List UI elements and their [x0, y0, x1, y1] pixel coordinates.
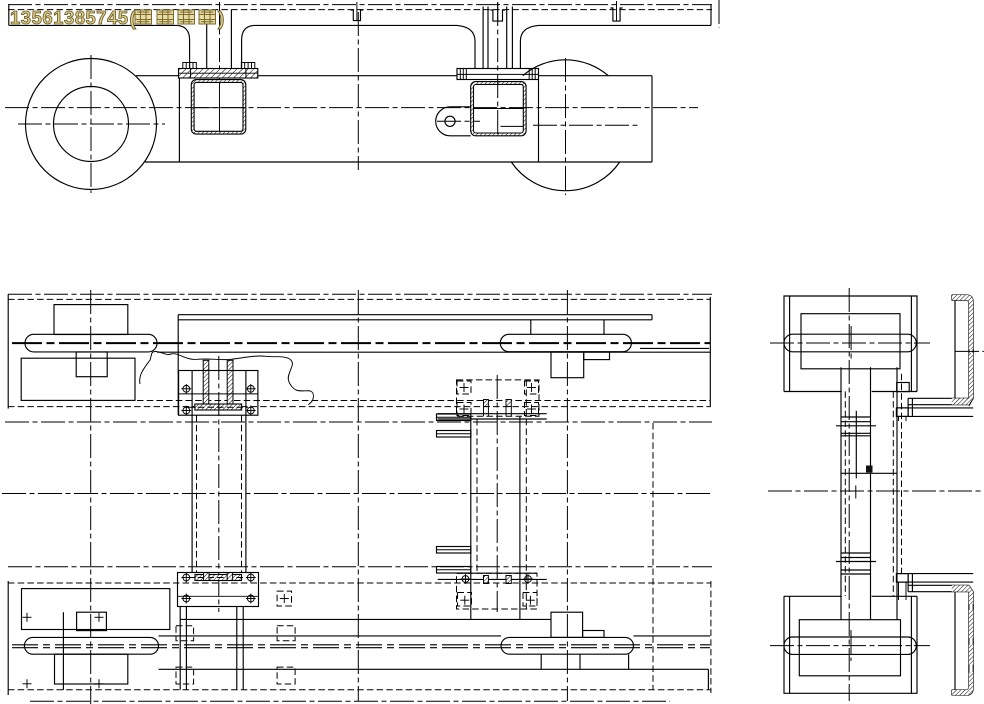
bottom channel inner face line — [954, 592, 956, 690]
hanger1 left bolt head — [183, 63, 197, 69]
hook plate step bottom 2 — [583, 631, 604, 638]
column1 plate bolt TL — [181, 384, 191, 394]
plan top rail dashed edge — [8, 298, 711, 300]
tab B stud — [497, 2, 499, 21]
hidden tube square c — [277, 591, 291, 606]
column1 clamp bar (hatched) — [195, 404, 242, 410]
wheel2 bottom arc — [511, 162, 619, 191]
rail clamp tab B — [490, 10, 505, 21]
column2 top flange hidden rect — [457, 380, 540, 416]
right view bottom rail inner rect — [799, 620, 900, 676]
right view bottom pill — [784, 637, 916, 654]
carriage lower rect top-left — [21, 358, 135, 400]
bottom block stud 1 — [898, 582, 900, 600]
bottom arm hatched strip — [952, 585, 969, 591]
plan bottom chain line y700 — [30, 700, 670, 702]
column2 top nut right — [506, 400, 511, 407]
hanger2 outer left — [474, 41, 476, 69]
wheel1 outer circle — [26, 59, 157, 190]
column2 bottom flange top edge solid — [457, 572, 538, 574]
column1 plate bolt TR — [246, 384, 256, 394]
column2 bottom nut right — [506, 576, 511, 584]
beam web line at hanger2 — [538, 80, 540, 163]
watermark glyph block 4 (hao) — [199, 10, 216, 24]
mark bottom-left b — [95, 613, 104, 622]
right view bottom frame inner left edge — [789, 596, 791, 693]
right view bottom pill centerline — [770, 645, 930, 647]
top rail dashed edge — [8, 9, 712, 11]
right view joint bands bottom — [836, 553, 876, 574]
plan vertical dashed x653 — [652, 423, 654, 690]
top channel chain mark — [955, 350, 984, 352]
hanger1 flange right ear line — [245, 69, 247, 79]
hanger2 rod pair left — [482, 7, 484, 69]
mark bottom-left a — [23, 613, 32, 622]
column2 right edge — [519, 416, 521, 619]
watermark glyph block 3 (tong) — [178, 10, 195, 24]
right view top rail outer frame — [784, 296, 917, 392]
right view column hidden right — [892, 391, 894, 596]
right view top frame inner right edge — [910, 296, 912, 392]
slot pill 2 (bottom rail) — [501, 637, 634, 654]
column1 bottom plate mid line — [178, 595, 259, 597]
hidden square c cross — [280, 594, 289, 603]
vertical reference line x719 — [718, 0, 720, 28]
right view top pill centerline — [770, 342, 930, 344]
plan bottom rail dashed bottom edge — [8, 689, 711, 691]
clevis lug — [436, 107, 471, 136]
column2 corner mark boxes — [457, 381, 471, 394]
column1 tube lines below bottom flange — [180, 607, 243, 690]
column2 nut stud 1 — [483, 407, 485, 417]
web drop line 1 — [530, 320, 532, 335]
column2 pin tab 1 — [437, 414, 471, 421]
column2 hidden left wall — [476, 419, 478, 573]
slot pill 1 (bottom rail) — [24, 637, 158, 654]
plan bottom rail chain edge — [8, 566, 712, 568]
tube2 horizontal centerline — [474, 108, 524, 110]
plan top rail left end — [7, 294, 9, 408]
top rail hidden line y400 — [137, 400, 710, 402]
hanger2 rod pair right — [506, 7, 508, 69]
hook plate step 2 — [584, 352, 610, 360]
vertical reference line x358 — [357, 12, 359, 170]
top C-channel inner contour — [952, 300, 969, 398]
tube2 vertical centerline — [497, 2, 499, 135]
carriage big rect bottom-left — [22, 589, 170, 630]
column2 nut stud 3 — [505, 407, 507, 417]
hanger2 flange split line — [457, 73, 539, 75]
pill2b drop verticals — [541, 654, 628, 669]
slot pill 1 (top rail) — [25, 334, 157, 352]
bottom block stud 2 — [905, 582, 907, 600]
plan mid chain line — [2, 493, 712, 495]
column1 top flange plate — [179, 371, 258, 416]
bottom arm plate lines — [896, 574, 973, 592]
column2 nut stud 2 — [487, 407, 489, 417]
top rail thick chain centerline — [12, 342, 710, 344]
top rail bottom edge segments — [9, 24, 178, 26]
column2 bottom bolt-row line — [438, 578, 547, 580]
top arm hatched strip — [952, 398, 969, 404]
top rail web line pair — [178, 314, 652, 316]
top arm vertical 2 — [911, 398, 913, 416]
right view column left edge — [840, 367, 842, 619]
bottom rail double chain centerline — [12, 644, 710, 646]
right view column partial line — [855, 411, 857, 479]
right view column inner line — [870, 367, 872, 619]
column1 left edge — [191, 371, 193, 573]
right view top pill center tick — [850, 326, 852, 360]
tab A stud — [356, 2, 358, 21]
right view column hidden left — [844, 391, 846, 596]
column2 bottom + BL — [460, 596, 469, 605]
top rail hidden bottom edge — [8, 406, 711, 408]
tube1 vertical centerline solid — [219, 82, 221, 131]
column1 plate mid line — [179, 393, 258, 395]
right view frame corner box — [897, 383, 910, 392]
hanger2 outer right — [519, 41, 521, 69]
beam web line at hanger1 — [178, 78, 180, 162]
hanger2 flange — [457, 69, 539, 80]
top rail left end — [8, 5, 10, 26]
bottom rail mid line segments — [159, 635, 502, 637]
column1 bottom nut right — [227, 573, 232, 581]
bottom arm vertical 2 — [911, 574, 913, 592]
column2 nut stud 4 — [510, 407, 512, 417]
wheel1 vertical centerline — [90, 55, 92, 193]
column2 bottom flange hidden rect — [457, 573, 538, 609]
wheel2 vertical centerline — [565, 58, 567, 195]
square tube 2 (section, hatched wall) — [471, 82, 526, 136]
top channel left end cap — [951, 295, 953, 300]
mark bottom-left c — [23, 679, 32, 688]
top block stud 1 — [898, 416, 900, 421]
column1 bottom bolt TL — [181, 573, 191, 583]
right view top rail inner rect — [801, 314, 900, 369]
column1 hidden right wall — [241, 415, 243, 572]
bottom channel left end cap — [951, 690, 953, 695]
slot pill 2 (top rail) — [500, 334, 631, 351]
web pair right end — [651, 315, 653, 320]
column1 plate bolt BR — [246, 406, 256, 416]
plan bottom rail left end — [7, 581, 9, 695]
beam bottom edge — [145, 161, 652, 163]
right view weld dot — [866, 466, 873, 473]
right view column right edge — [896, 367, 898, 619]
plan bottom rail right end (dashed) — [710, 581, 712, 693]
bottom clamp bar dashes — [188, 577, 248, 579]
carriage vertical line bottom-left — [62, 612, 64, 690]
bottom C-channel outer contour — [952, 585, 973, 695]
column2 corner mark BR — [527, 405, 536, 414]
mark bottom-left d — [95, 679, 104, 688]
svg-text:): ) — [218, 9, 224, 30]
column2 bottom + boxes — [458, 593, 472, 607]
right view column cross line — [841, 472, 897, 474]
top arm plate lines — [896, 398, 973, 416]
hanger1 centerline — [219, 2, 221, 135]
hanger1 flange left ear line — [190, 69, 192, 79]
top rail hidden top edge (chain line) — [8, 4, 712, 6]
column2 corner mark TL — [460, 383, 469, 392]
hidden tube square a — [176, 626, 194, 641]
column1 bottom bolt BR — [246, 594, 256, 604]
wheel2 horizontal centerline — [533, 124, 640, 126]
hidden tube square b — [176, 667, 194, 684]
tube2 extra line — [501, 125, 524, 127]
column2 bottom + BR — [526, 596, 535, 605]
top rail right end — [710, 5, 712, 26]
hanger2 left fillet — [457, 25, 475, 41]
top arm vertical 1 — [907, 398, 909, 416]
wheel1 horizontal centerline — [18, 123, 165, 125]
column2 left edge — [470, 416, 472, 619]
bottom channel hatched wall — [969, 585, 973, 604]
bottom arm clamp block — [896, 574, 908, 583]
break wavy line (top rail cut) — [140, 351, 314, 405]
plan chain line y422 — [5, 421, 712, 423]
hanger1 outer right — [241, 40, 243, 69]
right view mid chain tick — [855, 486, 857, 499]
column2 bottom nut left — [484, 576, 489, 584]
column1 hidden left wall — [196, 415, 198, 572]
hidden tube square d — [277, 626, 295, 641]
column2 vertical centerline — [496, 375, 498, 612]
main horizontal centerline of tubes — [5, 107, 698, 109]
top channel hatched wall — [952, 295, 973, 349]
column2 pin tab 4 — [437, 567, 471, 574]
svg-text:13561385745: 13561385745 — [10, 7, 129, 28]
column2 corner mark BL — [460, 405, 469, 414]
hanger2 right fillet — [520, 25, 538, 41]
rail clamp tab C — [610, 8, 622, 21]
column1 tube wall hatched strip right — [227, 360, 233, 404]
plan top rail right end — [709, 297, 711, 406]
clevis pin hole — [445, 116, 455, 126]
plan bottom rail dashed edge — [8, 582, 711, 584]
tab C stud — [616, 1, 618, 21]
column2 bottom bolt L — [461, 574, 471, 584]
carriage block bottom-left — [55, 654, 128, 684]
column1 bottom bolt TR — [246, 573, 256, 583]
top rail right slot edge stub — [640, 347, 709, 349]
bottom rail lower right corner — [707, 669, 709, 690]
clevis centerline — [437, 120, 480, 122]
top arm clamp block — [896, 408, 908, 417]
hanger1 inner left rod — [206, 10, 208, 69]
column1 plate bolt BL — [181, 406, 191, 416]
hanger1 flange (hatched) — [179, 69, 258, 79]
right view joint bands top — [836, 417, 876, 436]
column2 top nut left — [484, 400, 489, 407]
column1 tube wall hatched strip left — [203, 360, 209, 404]
beam right end — [651, 76, 653, 162]
right view bottom pill center tick — [850, 630, 852, 661]
plan vertical chain x358 — [357, 290, 359, 701]
bottom C-channel inner contour — [952, 592, 969, 690]
right view bottom frame inner right edge — [910, 596, 912, 693]
column1 right edge — [245, 371, 247, 573]
column1 bottom bolt BL — [181, 594, 191, 604]
tube1 horizontal centerline — [194, 107, 243, 109]
column2 bottom bolt R — [523, 574, 533, 584]
right view mid chain line — [768, 490, 982, 492]
hanger1 flange split line — [179, 72, 258, 74]
hook plate step 1 — [551, 352, 584, 378]
wheel2 top arc — [523, 60, 609, 76]
clamp bar dashes — [188, 406, 248, 408]
top rail lower edge line — [157, 351, 710, 353]
bottom rail lower edge line — [159, 668, 709, 670]
top channel inner face line — [954, 300, 956, 398]
top block stud 2 — [905, 416, 907, 421]
web drop line 2 — [603, 320, 605, 335]
bottom rail upper edge line — [180, 618, 551, 620]
column1 bottom nut left — [204, 573, 209, 581]
column2 corner mark TR — [527, 383, 536, 392]
column1 vertical centerline — [218, 356, 220, 612]
right view top frame inner left edge — [789, 296, 791, 392]
right view vertical chain centerline — [848, 288, 850, 701]
plan top rail chain edge — [8, 293, 712, 295]
carriage notch bottom-left — [77, 612, 107, 630]
column2 bolt-row bar lines — [438, 413, 547, 415]
hidden vertical between arms — [901, 374, 903, 574]
column1 region left edge / rail cut — [177, 315, 179, 416]
hook plate step bottom 1 — [551, 612, 583, 637]
hanger1 right bolt head — [241, 63, 255, 69]
carriage notch top-left — [76, 352, 107, 377]
column1 bottom clamp bar (hatched) — [195, 575, 242, 581]
plan vertical chain x567 — [566, 290, 568, 701]
hanger2 flange left shims — [460, 69, 466, 80]
hanger1 outer left — [189, 40, 191, 69]
watermark glyph block 1 (wei) — [135, 10, 152, 24]
hidden tube square e — [277, 667, 295, 684]
hanger1 inner right rod — [230, 10, 232, 69]
column2 pin tab 3 — [437, 547, 471, 554]
left carriage vertical centerline — [90, 290, 92, 704]
bottom arm vertical 1 — [907, 574, 909, 592]
hanger1 left fillet — [178, 25, 190, 40]
rail clamp tab A — [351, 10, 363, 21]
beam top edge — [136, 75, 179, 77]
right view top pill — [784, 334, 916, 352]
square tube 1 (section, hatched wall) — [191, 80, 246, 135]
wheel1 hub circle — [54, 87, 129, 162]
right view bottom rail outer frame — [784, 596, 917, 693]
carriage block top-left — [54, 305, 128, 335]
hanger1 right fillet — [242, 25, 254, 40]
column2 hidden right wall — [525, 380, 527, 609]
column1 bottom flange plate — [178, 573, 259, 607]
watermark glyph block 2 (xin) — [157, 10, 174, 24]
hanger2 flange right shims — [529, 69, 535, 80]
top C-channel outer contour — [952, 295, 973, 406]
column2 pin tab 2 — [437, 431, 471, 438]
